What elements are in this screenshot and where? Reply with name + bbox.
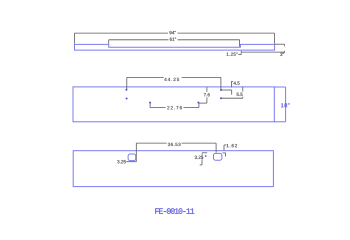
dim 36.53 label bbox=[167, 142, 182, 147]
dim 5.5 vertical bbox=[221, 87, 243, 99]
dim 18" label bbox=[281, 103, 289, 107]
dim 36.53 slot spacing bbox=[136, 143, 216, 162]
hole point B bbox=[126, 98, 128, 100]
slot hole 1 bbox=[128, 154, 136, 161]
dim 7.6 vertical bbox=[199, 87, 207, 103]
dim 4.5 leader bbox=[221, 81, 233, 94]
dim 18" height (blue) bbox=[274, 87, 285, 122]
middle view plate outline bbox=[73, 87, 274, 122]
drawing number FE-0010-11 bbox=[155, 208, 194, 214]
dim 61" label bbox=[168, 37, 177, 42]
hole point C bbox=[149, 102, 151, 104]
hole point F bbox=[197, 102, 199, 104]
dim 94" top view overall width dimension line bbox=[75, 33, 275, 44]
dim 44.25 hole spacing dimension bbox=[127, 77, 221, 89]
corner mark right of slot 2 bbox=[223, 153, 226, 157]
dim 22.76 bracket bbox=[150, 103, 199, 108]
dim 61" recess width dimension line bbox=[109, 40, 240, 47]
dim 94" label bbox=[168, 30, 178, 35]
top view bar outline with recess bbox=[75, 44, 275, 50]
leader baseline right of 1.25 bbox=[242, 51, 285, 53]
reference point near slot 2 bbox=[205, 155, 207, 157]
dim 3.25 right text bbox=[194, 155, 203, 160]
bottom view plate outline bbox=[73, 151, 273, 187]
hole point E bbox=[220, 97, 222, 99]
dim 5.5 label bbox=[236, 92, 244, 97]
hole point A bbox=[125, 89, 127, 91]
dim 22.76 label bbox=[166, 105, 184, 110]
dim 7.6 label bbox=[203, 92, 210, 97]
dim 1.62 label and leader bbox=[224, 144, 237, 150]
dim 3.25 right label and leader bbox=[200, 153, 208, 165]
slot hole 2 bbox=[214, 153, 222, 160]
dim 3.25 left label and leader bbox=[117, 160, 136, 163]
dim 44.25 label bbox=[164, 76, 182, 81]
hole point D bbox=[220, 89, 222, 91]
dim 4.5 label bbox=[234, 82, 240, 85]
dim 3" right end height bbox=[275, 44, 285, 53]
dim 1.25" label and leader bbox=[227, 51, 242, 56]
dim 3" label bbox=[280, 53, 284, 56]
